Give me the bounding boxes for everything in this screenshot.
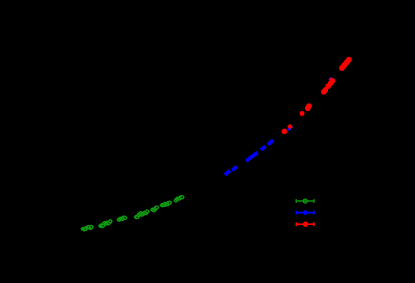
legend entry red circle marker [303, 221, 309, 227]
green cluster 5 errorbars [151, 207, 159, 211]
blue series diamond markers [224, 139, 275, 176]
green cluster 5 markers [151, 206, 158, 212]
green cluster 1 markers [82, 225, 93, 231]
blue series errorbars [224, 141, 273, 173]
red diamond over blue at lower overlap [287, 124, 293, 130]
magenta corner sliver at lower overlap [290, 126, 293, 129]
legend entry red errorbar line [296, 222, 315, 226]
legend entry green errorbar line [296, 199, 315, 203]
green cluster 6 errorbars [160, 202, 171, 206]
red series circle markers [282, 57, 352, 134]
green cluster 3 errorbars [117, 217, 127, 220]
green cluster 6 markers [161, 201, 172, 207]
green cluster 4 errorbars [134, 211, 149, 218]
blue diamond under red at lower overlap [287, 127, 292, 132]
green cluster 2 markers [99, 220, 112, 228]
green cluster 1 errorbars [81, 226, 93, 230]
green cluster 2 errorbars [99, 221, 112, 227]
green cluster 3 markers [118, 216, 127, 221]
legend entry green ring marker [303, 199, 307, 203]
magenta diamond hidden behind red cluster [329, 77, 334, 82]
legend entry blue diamond marker [302, 210, 308, 216]
legend entry blue errorbar line [296, 211, 315, 215]
green cluster 7 errorbars [174, 197, 184, 202]
green cluster 4 markers [135, 210, 149, 219]
green cluster 7 markers [175, 196, 184, 202]
